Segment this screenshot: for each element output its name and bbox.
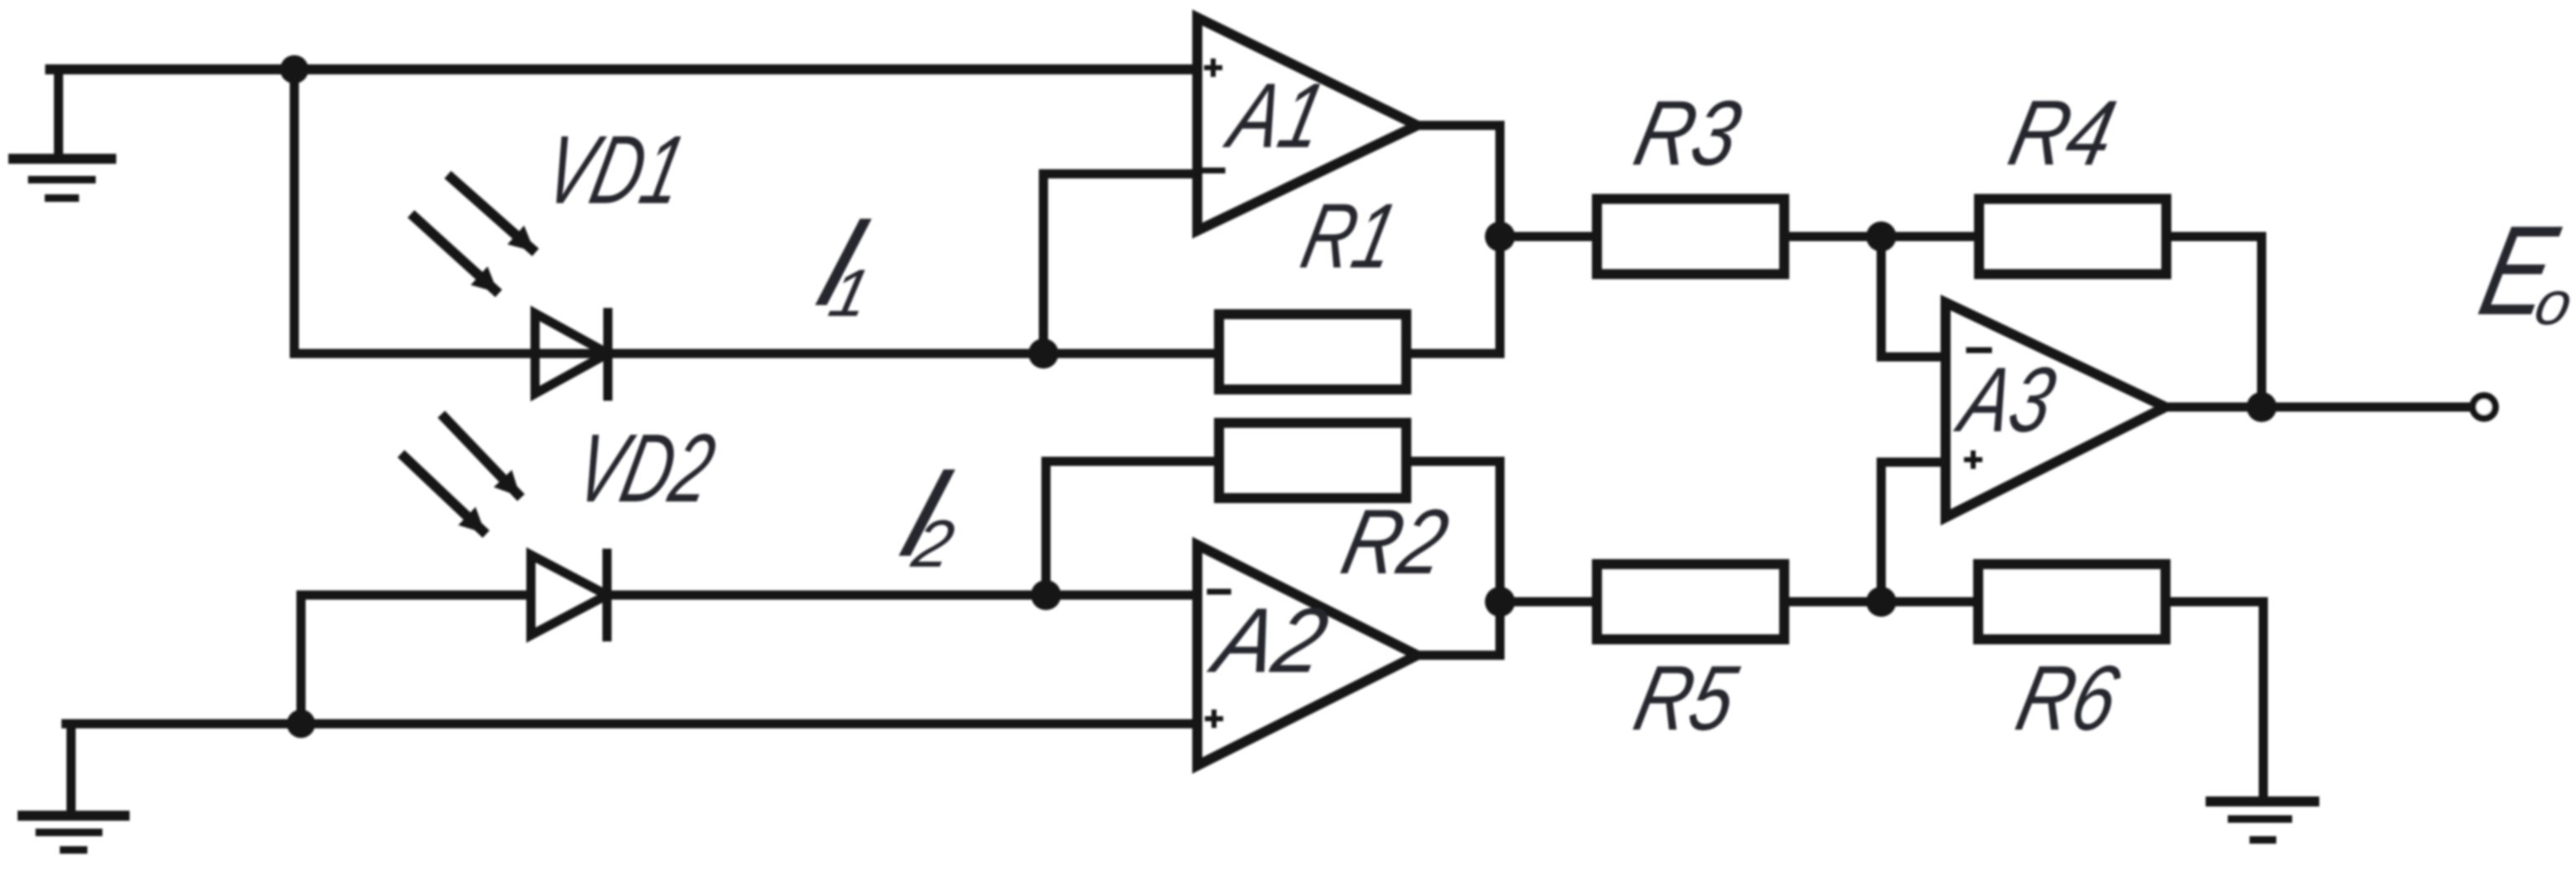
svg-text:A1: A1 [1217, 64, 1334, 166]
wire R3 to J4 [1784, 232, 1881, 242]
wire J4 down to A3 inverting input [1881, 237, 1946, 357]
wire A1 feedback vertical [1496, 125, 1505, 354]
wire A2 feedback vertical [1496, 461, 1505, 655]
wire J8 up to R2 left [1046, 461, 1214, 595]
op-amp A2 + mark [1207, 712, 1221, 725]
op-amp A1 + mark [1206, 61, 1220, 74]
wire J9 up to VD2 anode [301, 595, 531, 724]
wire J6 to R5 [1500, 598, 1597, 607]
wire J7 to R6 [1881, 598, 1978, 607]
resistor R3 [1597, 199, 1784, 274]
wire J2 up to A1 inverting input [1043, 174, 1194, 354]
wire R1 right [1406, 349, 1500, 359]
junction J3 [1485, 221, 1515, 252]
svg-text:R4: R4 [2001, 81, 2125, 184]
op-amp A1 [1197, 18, 1417, 231]
resistor R5 [1597, 564, 1784, 639]
current label I1 [802, 192, 882, 333]
resistor R1 (feedback box) [1219, 314, 1406, 389]
photodiode VD1 [535, 313, 608, 396]
op-amp A2 [1197, 545, 1417, 766]
svg-text:A3: A3 [1948, 348, 2064, 450]
wire R6 right down to ground GND2 [2165, 602, 2263, 801]
op-amp A3 - mark [1969, 348, 1989, 354]
wire A1 output [1417, 121, 1500, 130]
junction J4 [1866, 221, 1896, 252]
wire A3 noninverting input from J7 [1881, 462, 1946, 602]
ground GND3 bottom-left [23, 724, 125, 850]
wire A3 output to terminal [2165, 403, 2471, 412]
svg-text:R6: R6 [2008, 646, 2129, 749]
ground GND2 bottom-right [2211, 801, 2314, 840]
light arrows VD2 [405, 418, 518, 531]
wire J4 to R4 [1881, 232, 1979, 242]
op-amp A3 + mark [1966, 453, 1980, 466]
wire A2 output [1417, 651, 1500, 660]
wire bottom ground rail to A2 + input [66, 720, 1194, 729]
svg-text:VD2: VD2 [566, 414, 724, 521]
junction J2 [1028, 338, 1058, 369]
output terminal circle [2473, 396, 2496, 419]
svg-text:VD1: VD1 [535, 115, 695, 223]
svg-text:R2: R2 [1334, 490, 1457, 593]
wire VD2 cathode row to A2 inverting input [607, 591, 1194, 600]
wire J3 to R3 [1500, 232, 1597, 242]
wire R5 to J7 [1784, 598, 1881, 607]
junction J5 output node [2247, 392, 2277, 422]
resistor R6 [1978, 564, 2165, 639]
svg-text:A2: A2 [1201, 588, 1337, 691]
junction J1 [280, 55, 309, 84]
ground GND1 top-left [13, 69, 111, 198]
wire VD1 anode row [294, 349, 1214, 359]
op-amp A2 - mark [1210, 589, 1228, 595]
svg-text:R1: R1 [1293, 184, 1406, 287]
light arrows VD1 [415, 178, 532, 290]
wire R4 right down to output node [2166, 237, 2262, 407]
op-amp A1 - mark [1204, 168, 1222, 174]
photodiode VD2 [531, 553, 607, 637]
junction J6 [1485, 587, 1515, 617]
junction J7 [1866, 587, 1896, 617]
junction J9 [287, 710, 315, 738]
resistor R4 [1979, 199, 2166, 274]
label E0 [2468, 200, 2576, 342]
wire J1 down [290, 69, 299, 354]
wire R2 right [1406, 457, 1500, 466]
svg-text:R5: R5 [1626, 646, 1747, 749]
current label I2 [885, 443, 966, 583]
resistor R2 (feedback box) [1219, 423, 1406, 498]
junction J8 [1031, 580, 1061, 610]
wire top ground rail to A1 + input [50, 64, 1194, 74]
svg-text:R3: R3 [1626, 81, 1750, 184]
op-amp A3 [1946, 303, 2165, 517]
